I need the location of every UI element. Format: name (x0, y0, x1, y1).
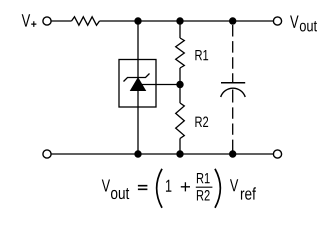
resistor R1 (176, 38, 185, 68)
equation Vout term (102, 179, 110, 191)
equation equals sign (138, 186, 148, 190)
series resistor (top) (72, 17, 100, 25)
capacitor top plate (221, 82, 245, 84)
equation right parenthesis (215, 169, 220, 208)
wire bottom rail (51, 153, 273, 155)
terminal circle bottom left (43, 150, 51, 158)
equation left parenthesis (157, 169, 162, 208)
zener diode cathode bar (124, 74, 150, 82)
terminal circle bottom right (273, 150, 281, 158)
node dot top zener branch (134, 17, 141, 24)
wire top node to zener cathode (137, 21, 139, 78)
label V+ plus sign (31, 21, 36, 27)
node dot top R1 branch (176, 17, 183, 24)
dashed wire top node to capacitor (232, 25, 234, 83)
shunt reference box U1 (119, 60, 156, 108)
wire R1 to node (179, 68, 181, 103)
node dot R1/R2 junction (176, 81, 183, 88)
label R2 (195, 117, 208, 127)
label Vout (290, 16, 299, 28)
equation fraction numerator R1 (197, 173, 210, 183)
wire top rail (100, 20, 274, 22)
resistor R2 (176, 103, 185, 139)
capacitor lead stub (232, 90, 234, 103)
label V+ (22, 14, 31, 26)
wire top node to R1 (179, 21, 181, 38)
dashed wire capacitor to bottom rail (232, 107, 234, 154)
wire R2 to bottom rail (179, 139, 181, 155)
equation digit 1 (166, 180, 171, 192)
node dot bottom zener branch (134, 150, 141, 157)
wire V+ terminal to series resistor (51, 20, 71, 22)
terminal circle Vout (273, 17, 281, 25)
node dot bottom capacitor branch (229, 150, 236, 157)
wire reference tap to R1/R2 node (140, 84, 180, 86)
label R1 (195, 50, 208, 60)
zener diode anode triangle (131, 78, 146, 91)
equation fraction bar (196, 186, 213, 188)
equation fraction denominator R2 (197, 190, 210, 200)
wire zener anode to bottom rail (137, 91, 139, 155)
terminal circle V+ input (43, 17, 51, 25)
equation Vref term (230, 179, 238, 191)
node dot top capacitor branch (229, 17, 236, 24)
node dot bottom R2 branch (176, 150, 183, 157)
capacitor bottom curved plate (221, 88, 246, 97)
equation plus sign (181, 182, 190, 191)
